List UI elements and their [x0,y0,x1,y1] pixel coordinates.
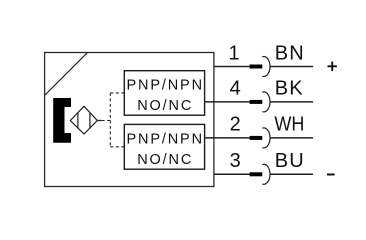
sensor body outline U1 [45,53,214,187]
svg-text:2: 2 [230,114,241,136]
pin 1 plug [250,65,263,69]
wire 1 right segment [270,66,313,68]
plus sign [328,65,337,67]
diamond chord right [89,112,91,128]
svg-text:BU: BU [275,150,305,172]
wire 4 left segment [205,101,250,103]
svg-text:BN: BN [275,42,305,64]
svg-text:1: 1 [228,42,239,64]
switch output stub [97,120,101,122]
dashed link horizontal [102,120,111,122]
pin 2 plug [250,136,263,140]
dashed link to box B [110,146,124,148]
corner diagonal [45,53,88,95]
output stage box A [124,71,204,116]
minus sign [327,174,335,176]
svg-text:WH: WH [274,114,304,136]
pin 3 plug [250,172,263,176]
wire 4 right segment [270,101,313,103]
svg-text:NO/NC: NO/NC [137,152,193,168]
sensing face bracket [53,98,71,143]
dashed link to box A [110,92,124,94]
output stage box B [124,124,204,169]
pin 3 socket arc [262,164,270,184]
svg-text:PNP/NPN: PNP/NPN [126,131,203,147]
svg-text:3: 3 [230,150,241,172]
pin 4 socket arc [262,92,270,112]
pin 1 socket arc [262,56,270,76]
diamond chord left [77,112,79,128]
pin 2 socket arc [262,128,270,148]
wire 2 right segment [270,137,313,139]
svg-text:BK: BK [275,78,304,100]
svg-text:NO/NC: NO/NC [137,98,193,114]
dashed link vertical [109,93,111,147]
wire 3 left segment [214,173,250,175]
pin 4 plug [250,100,263,104]
wire 2 left segment [205,137,250,139]
svg-text:4: 4 [230,78,241,100]
proximity switch diamond [70,106,97,134]
svg-text:PNP/NPN: PNP/NPN [126,77,203,93]
wire 3 right segment [270,173,313,175]
wire 1 left segment [214,66,250,68]
